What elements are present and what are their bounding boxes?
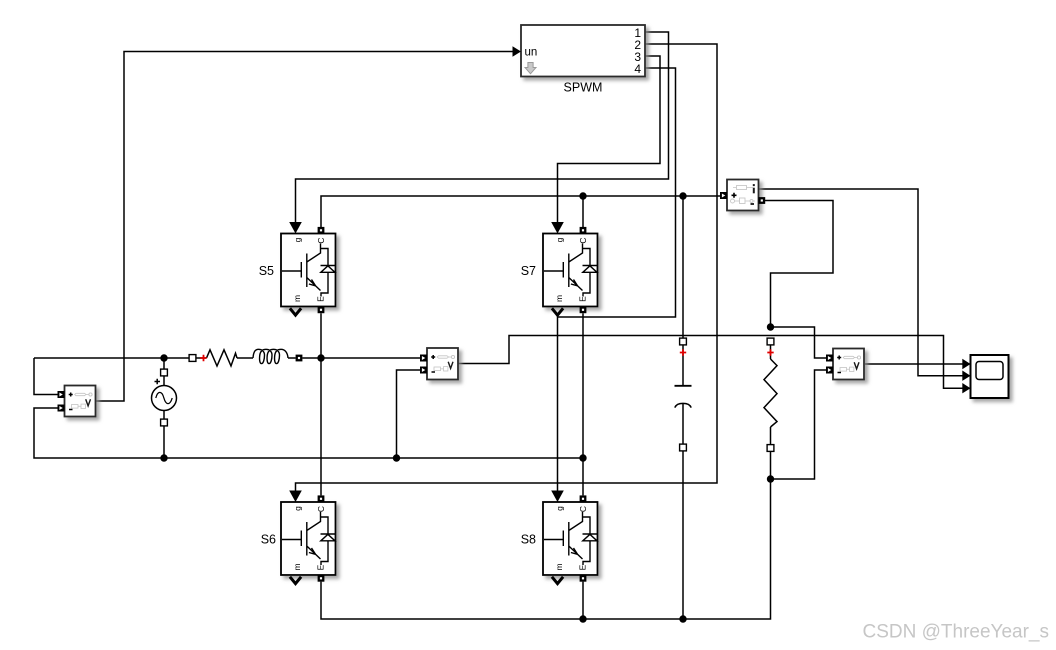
polarity mark load resistor plus (767, 349, 773, 355)
svg-text:SPWM: SPWM (564, 81, 603, 95)
wire top DC link: S5 C to S7 C to capacitor to current meter (321, 196, 721, 338)
svg-text:CSDN @ThreeYear_s: CSDN @ThreeYear_s (863, 622, 1050, 643)
transistor S7 (IGBT/Diode) (543, 222, 598, 315)
wire capacitor internal bottom lead (682, 404, 684, 444)
svg-text:S8: S8 (521, 532, 536, 546)
wire resistor load top lead (770, 345, 772, 359)
node load resistor top junction (767, 323, 774, 330)
port capacitor top (680, 338, 687, 345)
port RL branch left (189, 355, 196, 362)
current measurement I1 (720, 180, 765, 211)
polarity mark capacitor plus (680, 349, 686, 355)
wire AC source plus rail through RL branch (34, 357, 421, 359)
voltage measurement VM3 (load voltage) (826, 349, 864, 380)
port load resistor bottom (767, 445, 774, 452)
wire AC minus rail to S7/S8 midpoint (164, 457, 583, 459)
svg-text:S7: S7 (521, 264, 536, 278)
wire current meter minus to load resistor top (765, 201, 833, 324)
node VM2 minus tap (393, 454, 400, 461)
node capacitor bottom rail junction (679, 615, 686, 622)
node load resistor bottom junction (767, 475, 774, 482)
capacitor C plates (675, 385, 692, 387)
node AC source plus junction (160, 354, 167, 361)
wire AC source vertical stubs (163, 358, 165, 458)
voltage measurement VM1 (source voltage un) (58, 386, 96, 417)
port RL branch right (296, 355, 303, 362)
svg-text:S6: S6 (261, 532, 276, 546)
wire bottom rail: S6 E, S8 E, capacitor bottom, resistor bottom (321, 451, 771, 619)
wire current meter i output to scope input 2 (759, 189, 963, 376)
inductor L (series RL branch) (253, 349, 288, 363)
svg-text:S5: S5 (259, 264, 274, 278)
transistor S5 (IGBT/Diode) (281, 222, 336, 315)
wire S5 E to midpoint to S6 C (320, 313, 322, 495)
node AC source minus junction (160, 454, 167, 461)
resistor R (series RL branch) (207, 350, 238, 366)
transistor S8 (IGBT/Diode) (543, 491, 598, 584)
node S8 emitter rail junction (579, 615, 586, 622)
port load resistor top (767, 338, 774, 345)
wire SPWM out4 to S8 gate (558, 68, 676, 491)
wire S7 E to midpoint to S8 C (582, 313, 584, 495)
wire VM2 minus link (397, 370, 421, 458)
port capacitor bottom (680, 444, 687, 451)
wire SPWM out3 to S7 gate (558, 56, 661, 222)
scope block (962, 355, 1008, 398)
wire left drop to VM1 plus (34, 358, 58, 395)
svg-text:4: 4 (634, 62, 641, 76)
port AC source plus terminal (161, 369, 168, 376)
node S5/S6 leg midpoint (317, 354, 324, 361)
wire VM1 minus to AC source minus rail (34, 408, 164, 458)
wire capacitor internal top lead (682, 345, 684, 385)
AC voltage source circle (152, 379, 177, 411)
node S7/S8 leg midpoint (579, 454, 586, 461)
transistor S6 (IGBT/Diode) (281, 491, 336, 584)
wire un-feedback: VM1 output to SPWM input (96, 52, 513, 402)
voltage measurement VM2 (bridge input voltage) (420, 348, 458, 380)
wire SPWM out1 to S5 gate (296, 32, 669, 222)
node capacitor top tap (679, 192, 686, 199)
node S7 collector tap (579, 192, 586, 199)
svg-text:un: un (525, 47, 538, 59)
port AC source minus terminal (161, 419, 168, 426)
polarity mark RL branch plus (200, 355, 206, 361)
wire VM3 output to scope input 1 (865, 363, 963, 365)
wire VM2 output to scope input 3 (459, 336, 963, 389)
SPWM subsystem block (513, 25, 646, 77)
wire SPWM out2 to S6 gate (296, 44, 718, 491)
wire load resistor top to VM3 plus (771, 327, 827, 358)
wire load resistor bottom junction to VM3 minus (771, 370, 827, 479)
resistor load zigzag (764, 359, 777, 427)
wire resistor load bottom lead (770, 427, 772, 479)
